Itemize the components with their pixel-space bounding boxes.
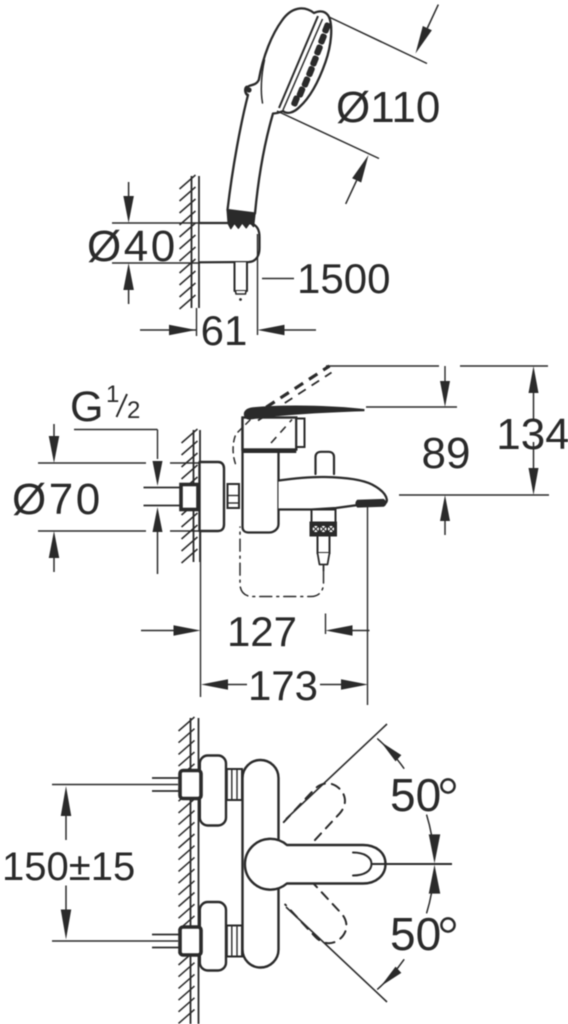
svg-text:2: 2	[127, 397, 140, 424]
svg-text:Ø40: Ø40	[87, 222, 178, 271]
svg-text:G: G	[70, 383, 103, 431]
svg-text:1500: 1500	[297, 255, 390, 302]
svg-text:127: 127	[227, 608, 297, 655]
svg-text:61: 61	[201, 307, 248, 354]
svg-text:150±15: 150±15	[2, 845, 135, 889]
svg-text:Ø70: Ø70	[12, 475, 103, 524]
svg-text:134: 134	[496, 410, 568, 459]
svg-text:50: 50	[390, 769, 441, 821]
svg-text:173: 173	[248, 662, 318, 709]
svg-text:50: 50	[390, 908, 441, 960]
svg-text:1: 1	[106, 381, 119, 408]
svg-text:Ø110: Ø110	[336, 83, 440, 132]
svg-text:89: 89	[422, 429, 471, 478]
